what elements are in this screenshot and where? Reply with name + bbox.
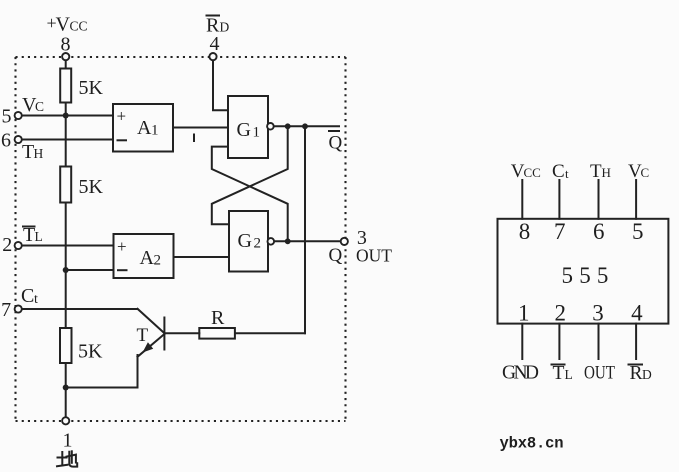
junction dot on Qbar wire (to G2) — [285, 123, 291, 129]
pin 3 terminal OUT — [329, 227, 393, 266]
pin 6 terminal TH — [1, 130, 44, 164]
svg-text:7: 7 — [1, 299, 11, 321]
svg-text:5: 5 — [579, 263, 591, 288]
svg-text:t: t — [34, 292, 38, 307]
svg-text:A: A — [140, 247, 155, 269]
dashed boundary of 555 internal diagram — [16, 57, 346, 421]
chinese character ground (di) — [57, 451, 77, 466]
svg-text:G: G — [237, 119, 251, 141]
pin 8 terminal +VCC — [47, 13, 88, 60]
svg-text:L: L — [35, 229, 43, 244]
svg-text:T: T — [553, 363, 565, 384]
svg-text:1: 1 — [63, 430, 73, 452]
resistor R (base) — [199, 328, 235, 339]
svg-text:t: t — [565, 166, 569, 181]
svg-text:5: 5 — [2, 106, 12, 128]
pin 2 terminal TL-bar — [2, 224, 43, 256]
transistor T (discharge) — [138, 309, 165, 357]
svg-text:8: 8 — [61, 34, 71, 56]
svg-text:L: L — [565, 367, 573, 382]
wire: divider node to A2 inverting input — [66, 269, 114, 271]
svg-text:2: 2 — [254, 236, 262, 252]
inversion bubble of G2 — [268, 238, 275, 245]
wire: TL pin2 to A2 noninverting input — [22, 245, 114, 247]
wire: VCC rail pin8 to R1 — [65, 60, 67, 69]
svg-text:OUT: OUT — [584, 362, 615, 383]
svg-text:1: 1 — [518, 301, 530, 326]
svg-text:T: T — [22, 141, 34, 163]
wire: Ct pin7 to transistor collector — [22, 308, 138, 310]
wire: G2 output to pin3 OUT — [274, 240, 341, 242]
svg-text:C: C — [35, 99, 44, 114]
svg-text:C: C — [641, 165, 650, 180]
svg-text:T: T — [137, 325, 149, 346]
IC pin 7 stub and label Ct — [552, 161, 569, 244]
resistor R3 5K — [60, 328, 72, 363]
wire: base bar to resistor R — [166, 332, 200, 334]
svg-text:Q: Q — [329, 245, 343, 266]
svg-text:H: H — [34, 146, 44, 161]
pin 4 terminal RD-bar — [206, 15, 230, 61]
svg-text:2: 2 — [154, 252, 162, 268]
svg-text:D: D — [220, 20, 230, 35]
svg-text:4: 4 — [210, 33, 220, 55]
IC pin 6 stub and label TH — [590, 161, 611, 244]
wire: TH pin6 to A1 inverting input — [22, 139, 113, 141]
wire: G1 output Qbar line — [274, 125, 339, 127]
svg-text:R: R — [630, 363, 643, 384]
svg-text:6: 6 — [1, 130, 11, 152]
junction dot: A2 inverting node — [63, 267, 69, 273]
svg-text:5: 5 — [632, 219, 644, 244]
IC pin 2 stub and label TL-bar — [552, 301, 573, 385]
svg-text:5: 5 — [562, 263, 574, 288]
junction dot on OUT wire — [285, 238, 291, 244]
gate G2 — [229, 211, 268, 272]
svg-text:1: 1 — [253, 125, 261, 141]
stray tick mark on A1-G1 wire — [193, 135, 195, 142]
IC pin 3 stub and label OUT — [584, 301, 615, 384]
svg-text:+: + — [117, 107, 127, 126]
svg-text:4: 4 — [631, 301, 643, 326]
svg-text:5: 5 — [597, 263, 609, 288]
svg-text:T: T — [23, 224, 35, 246]
svg-text:2: 2 — [2, 234, 12, 256]
svg-text:1: 1 — [151, 123, 159, 139]
label 5 5 5 — [562, 263, 609, 288]
svg-text:6: 6 — [593, 219, 605, 244]
555 IC pinout box — [498, 219, 669, 324]
svg-text:+: + — [117, 237, 127, 256]
pin 1 terminal ground — [62, 417, 72, 451]
svg-text:5K: 5K — [79, 176, 104, 198]
svg-text:G: G — [238, 230, 252, 252]
svg-text:R: R — [211, 307, 225, 329]
junction dot on Qbar wire (to base resistor) — [302, 123, 308, 129]
wire: Qbar vertical down to resistor R — [304, 126, 306, 333]
resistor R1 5K — [60, 69, 71, 103]
label Qbar at G1 output — [329, 131, 343, 154]
svg-text:OUT: OUT — [356, 245, 392, 265]
svg-text:A: A — [137, 117, 152, 139]
svg-text:C: C — [552, 161, 565, 182]
wire: R to vertical elbow — [235, 332, 305, 334]
svg-text:GND: GND — [502, 362, 539, 383]
svg-text:ybx8.cn: ybx8.cn — [500, 435, 564, 453]
svg-text:C: C — [21, 285, 34, 307]
wire: rail R3 to pin1 — [65, 363, 67, 418]
svg-text:3: 3 — [592, 301, 604, 326]
svg-text:5K: 5K — [78, 341, 103, 363]
svg-text:5K: 5K — [79, 77, 104, 99]
IC pin 5 stub and label VC — [628, 161, 649, 244]
svg-text:H: H — [602, 165, 611, 180]
op-amp comparator A2 — [114, 234, 174, 278]
wire: VC pin5 to A1 noninverting input — [22, 115, 113, 117]
svg-text:CC: CC — [70, 19, 88, 34]
svg-text:Q: Q — [329, 133, 343, 154]
junction dot: emitter-ground node — [63, 385, 69, 391]
IC pin 1 stub and label GND — [502, 301, 539, 384]
op-amp comparator A1 — [113, 104, 173, 152]
junction dot: VC node — [63, 113, 69, 119]
wire: rail R2 to R3 — [65, 202, 67, 329]
IC pin 8 stub and label VCC — [511, 161, 541, 244]
wire: RD pin4 down into G1 — [213, 60, 228, 110]
wire: A2 output to G2 — [174, 256, 230, 258]
svg-text:T: T — [590, 161, 602, 182]
IC pin 4 stub and label RD-bar — [629, 301, 653, 385]
wire: cross-couple G1 output to G2 input — [212, 126, 288, 224]
svg-text:8: 8 — [519, 219, 531, 244]
wire: rail R1 to R2 — [65, 102, 67, 167]
pin 5 terminal VC — [2, 94, 45, 128]
svg-text:7: 7 — [554, 219, 566, 244]
pin 7 terminal Ct — [1, 285, 38, 321]
wire: A1 output to G1 — [173, 127, 228, 129]
wire: emitter down and to ground rail — [66, 355, 138, 388]
svg-text:CC: CC — [524, 165, 541, 180]
svg-text:V: V — [56, 14, 71, 36]
gate G1 — [228, 96, 268, 158]
wire: cross-couple G2 output to G1 input — [212, 147, 288, 242]
svg-text:2: 2 — [554, 301, 566, 326]
resistor R2 5K — [60, 167, 71, 203]
svg-text:D: D — [642, 367, 652, 382]
inversion bubble of G1 — [267, 123, 274, 130]
